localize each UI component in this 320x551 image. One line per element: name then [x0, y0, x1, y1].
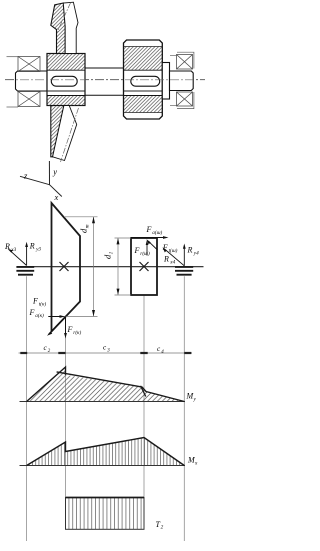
- grid line force point K: [65, 317, 67, 530]
- svg-text:F: F: [134, 246, 140, 255]
- bevel rim lower web (hatched): [51, 106, 64, 157]
- right collar: [162, 63, 169, 100]
- Ry4 arrow: [183, 246, 185, 266]
- My baseline: [20, 401, 186, 403]
- spur gear hatch lower: [124, 96, 162, 113]
- d1 dimension line: [117, 238, 119, 295]
- svg-text:R: R: [163, 255, 169, 264]
- svg-text:1: 1: [109, 251, 115, 254]
- X mark S: [140, 262, 149, 271]
- T2 top edge: [66, 497, 145, 499]
- Fr(k) arrow: [65, 317, 67, 337]
- grid line bearing3: [26, 276, 28, 541]
- c2 right tick: [58, 352, 65, 354]
- left shaft end: [16, 71, 48, 91]
- dm dimension line: [93, 217, 95, 316]
- tooth root lines: [124, 46, 163, 48]
- svg-text:t(ш): t(ш): [169, 247, 178, 254]
- svg-text:а(ш): а(ш): [152, 229, 162, 236]
- grid line gear S center: [143, 295, 145, 529]
- svg-text:m: m: [85, 224, 91, 228]
- spur gear body: [124, 40, 163, 119]
- right bearing upper box: [177, 55, 193, 70]
- c3/c4 tick: [140, 352, 147, 354]
- pitch line lower: [61, 108, 79, 162]
- bevel gear hub section: [47, 54, 85, 106]
- shaft between gears: [85, 67, 124, 69]
- My diagram hatch: [27, 367, 185, 402]
- svg-text:z: z: [23, 171, 28, 181]
- key on shaft (left): [51, 76, 77, 86]
- pitch line upper: [57, 3, 70, 32]
- Mx diagram hatch: [27, 438, 185, 466]
- center line overlay: [5, 79, 205, 81]
- dm top extension line: [64, 216, 98, 218]
- svg-text:y: y: [52, 167, 57, 177]
- bevel rim upper tooth band: [63, 2, 78, 53]
- svg-text:R: R: [4, 242, 10, 251]
- label dm (rotated): [79, 224, 91, 233]
- svg-text:F: F: [29, 308, 35, 317]
- T2 torque rectangle hatch: [66, 498, 145, 530]
- Fr(s) arrow: [146, 243, 148, 256]
- svg-text:F: F: [32, 297, 38, 306]
- left housing tick bottom: [7, 106, 19, 108]
- reaction Rx3 arrow: [9, 250, 27, 266]
- svg-text:x: x: [54, 192, 59, 202]
- left bearing lower box: [18, 92, 40, 107]
- svg-text:x4: x4: [169, 259, 175, 266]
- svg-text:F: F: [146, 225, 152, 234]
- c2 left tick: [20, 352, 27, 354]
- svg-text:y3: y3: [35, 247, 41, 253]
- c4 right tick: [184, 352, 191, 354]
- hub bore lines: [47, 69, 85, 71]
- svg-text:t(к): t(к): [39, 301, 47, 308]
- bearing 4 bars: [175, 267, 193, 275]
- reaction Ry3 arrow: [26, 244, 28, 266]
- Ft(s) arrow: [149, 241, 158, 250]
- axis z: [20, 176, 50, 184]
- gear bore lines: [124, 69, 163, 71]
- left housing tick top: [7, 56, 19, 58]
- My outline: [27, 367, 66, 402]
- Fa(k) arrow: [49, 316, 62, 318]
- svg-text:R: R: [29, 242, 35, 251]
- bevel rim lower tooth band: [53, 106, 77, 161]
- svg-text:R: R: [187, 246, 193, 255]
- T2 rectangle: [66, 498, 145, 530]
- bevel rim upper web (hatched): [51, 3, 65, 54]
- svg-text:F: F: [162, 243, 168, 252]
- svg-text:x3: x3: [10, 247, 16, 253]
- CDIM: [20, 367, 197, 403]
- Ft(k) arrow: [49, 317, 66, 335]
- My jump mark: [141, 386, 146, 397]
- axis y: [48, 161, 50, 185]
- right housing lines: [170, 52, 194, 108]
- Mx outline: [27, 438, 185, 466]
- spur gear S rectangle: [131, 238, 157, 295]
- shaft center line: [5, 79, 205, 81]
- schematic shaft line: [30, 266, 204, 268]
- svg-text:r(ш): r(ш): [140, 250, 150, 257]
- Mx baseline: [20, 465, 186, 467]
- X mark K: [60, 262, 69, 271]
- bearing 3 bars: [16, 267, 34, 275]
- Rx4 arrow: [165, 249, 185, 266]
- SCHEMATIC: [19, 344, 193, 355]
- label d1 (rotated): [103, 251, 115, 259]
- Fa(k) line and bottom extension: [48, 316, 98, 318]
- Fa(s) arrow: [131, 237, 166, 239]
- svg-text:y4: y4: [193, 250, 199, 257]
- svg-text:а(к): а(к): [35, 312, 44, 319]
- TOPVIEW: [4, 161, 204, 541]
- grid line bearing4: [183, 276, 185, 541]
- right bearing lower box: [177, 92, 193, 106]
- axis x: [50, 185, 62, 197]
- d1 extension top: [115, 237, 132, 239]
- svg-text:2: 2: [161, 525, 164, 531]
- c dimension line: [19, 352, 193, 354]
- svg-text:r(к): r(к): [73, 329, 81, 336]
- bevel gear K trapezoid: [52, 203, 81, 332]
- d1 extension bottom: [115, 294, 132, 296]
- svg-text:F: F: [67, 325, 73, 334]
- key on shaft (right): [131, 76, 160, 86]
- spur gear hatch upper: [124, 47, 162, 71]
- left bearing upper box: [18, 57, 40, 72]
- right shaft end: [170, 71, 194, 91]
